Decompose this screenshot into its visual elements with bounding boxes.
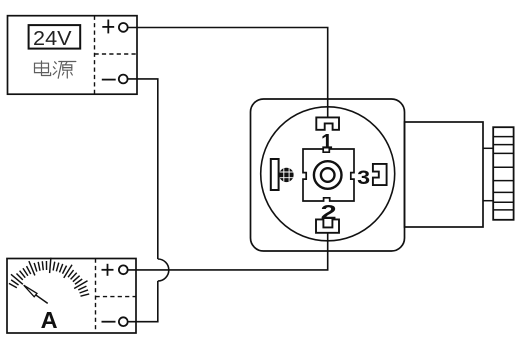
svg-text:24V: 24V — [33, 28, 72, 50]
power - terminal symbol — [102, 79, 116, 81]
ammeter scale ticks — [9, 258, 89, 296]
ammeter - terminal symbol — [102, 321, 116, 323]
connector face circle — [261, 107, 395, 241]
power - terminal circle — [119, 75, 128, 84]
power + terminal circle — [119, 23, 128, 32]
power supply terminal partition dashed line — [94, 16, 96, 95]
ammeter + terminal circle — [119, 265, 128, 274]
源 — [55, 62, 57, 64]
cable gland knurl ribs — [493, 137, 513, 210]
ammeter - terminal circle — [119, 317, 128, 326]
wire: power - continued to ammeter - — [128, 281, 158, 322]
power + terminal symbol — [102, 20, 114, 34]
connector neck rectangle — [405, 122, 484, 227]
24V label box — [29, 25, 81, 48]
connector center screw inner circle — [321, 168, 335, 182]
ammeter terminal partition dashed line — [95, 259, 97, 334]
wire hop (half circle) — [158, 259, 169, 281]
power supply terminal divider dashed line — [95, 53, 138, 55]
svg-text:1: 1 — [321, 131, 333, 154]
cable gland body — [493, 127, 513, 220]
ammeter + terminal symbol — [102, 264, 114, 276]
pin 3 contact slot — [373, 164, 387, 185]
connector center block (square with keying notches) — [303, 149, 354, 201]
svg-text:2: 2 — [321, 202, 337, 224]
pin 1 contact slot — [316, 117, 339, 129]
neck to gland stub bottom — [483, 200, 493, 202]
ground stem — [279, 174, 282, 176]
connector body (rounded square) — [251, 99, 405, 251]
label 电源 (hand drawn strokes) — [35, 61, 76, 78]
neck to gland stub top — [483, 147, 493, 149]
wire: power + to connector pin 1 — [128, 28, 328, 118]
connector center screw outer circle — [314, 161, 342, 189]
ammeter terminal divider dashed line — [96, 296, 137, 298]
svg-text:A: A — [41, 307, 58, 333]
power supply box PS1 — [8, 16, 138, 95]
wire: ammeter + to connector pin 2 — [128, 233, 328, 270]
ammeter needle — [34, 294, 48, 304]
pin 2 contact slot — [316, 219, 339, 232]
电 — [35, 63, 49, 72]
ground slot — [271, 159, 279, 190]
ground earth symbol — [278, 166, 295, 184]
wire: power - down with hop over ammeter wire — [128, 79, 158, 259]
ammeter box M1 — [7, 259, 136, 334]
svg-text:3: 3 — [357, 167, 370, 189]
